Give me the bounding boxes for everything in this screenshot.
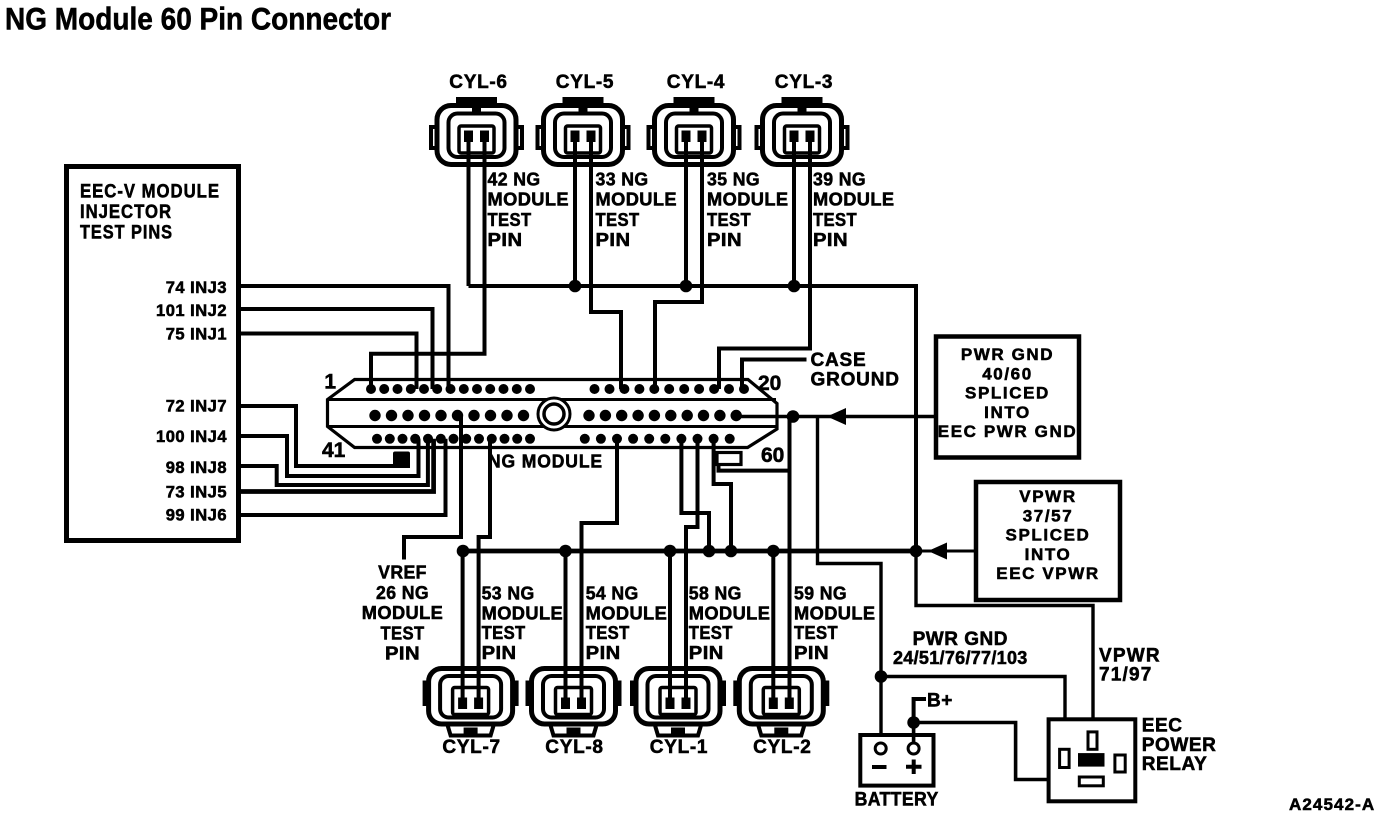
- connector CYL-8: [550, 722, 598, 736]
- svg-text:99 INJ6: 99 INJ6: [166, 506, 227, 524]
- wire PWR GND to battery negative: [818, 417, 882, 744]
- svg-text:MODULE: MODULE: [586, 603, 668, 623]
- svg-text:PIN: PIN: [596, 230, 631, 250]
- svg-text:PIN: PIN: [385, 644, 420, 664]
- connector CYL-3: [782, 97, 823, 106]
- PWR GND 40/60 box: [936, 337, 1079, 458]
- svg-text:98 INJ8: 98 INJ8: [166, 459, 227, 477]
- svg-text:SPLICED: SPLICED: [965, 384, 1050, 403]
- svg-text:MODULE: MODULE: [794, 603, 876, 623]
- wire B+ battery positive to relay: [914, 723, 1080, 780]
- svg-text:EEC-V MODULE: EEC-V MODULE: [80, 182, 220, 203]
- svg-text:POWER: POWER: [1142, 735, 1217, 756]
- svg-text:41: 41: [322, 439, 346, 462]
- svg-text:INJECTOR: INJECTOR: [80, 202, 172, 223]
- svg-text:53 NG: 53 NG: [482, 583, 535, 603]
- connector CYL-5: [563, 97, 604, 106]
- svg-text:PIN: PIN: [482, 643, 517, 663]
- wire CYL-3 left pin to bus: [792, 140, 796, 286]
- battery negative terminal: [875, 743, 886, 754]
- svg-text:24/51/76/77/103: 24/51/76/77/103: [893, 648, 1028, 668]
- wire B+ label pointer: [914, 699, 926, 723]
- NG module internal separator lines: [328, 398, 776, 401]
- wire CYL-6 right pin to NG pin 1: [371, 140, 485, 389]
- wire VPWR top bus: [469, 286, 917, 551]
- svg-text:BATTERY: BATTERY: [855, 790, 939, 811]
- wire NG pin 37 VPWR stub: [714, 439, 731, 551]
- arrow PWR GND: [827, 408, 846, 425]
- svg-text:NG MODULE: NG MODULE: [488, 452, 603, 472]
- svg-text:INTO: INTO: [1025, 545, 1072, 564]
- svg-text:TEST: TEST: [813, 210, 857, 230]
- wire CYL-8 left pin to bus: [564, 551, 568, 703]
- junction pin 37 bus: [725, 545, 738, 558]
- NG module pin row 1-20: [366, 384, 376, 394]
- svg-text:PIN: PIN: [586, 643, 621, 663]
- svg-text:CASE: CASE: [811, 350, 867, 371]
- wire PWR GND vertical / CYL-2 right pin: [788, 417, 792, 704]
- wire 98 INJ8 to NG module: [238, 439, 428, 485]
- relay right pin slot: [1115, 755, 1125, 772]
- battery minus sign: [872, 765, 887, 769]
- svg-text:26 NG: 26 NG: [376, 583, 429, 603]
- connector CYL-7: [447, 722, 495, 736]
- wire 74 INJ3 to NG module: [238, 286, 449, 389]
- wire case ground to NG pin 20: [742, 360, 807, 390]
- svg-text:MODULE: MODULE: [488, 190, 570, 210]
- wire NG pin 57 VPWR stub: [681, 439, 709, 551]
- wire 72 INJ7 to NG module: [238, 406, 410, 466]
- EEC power relay K1: [1049, 719, 1136, 801]
- junction CYL-4 bus: [680, 280, 693, 293]
- svg-text:CYL-8: CYL-8: [545, 737, 603, 758]
- wire NG pin 40 PWR GND: [736, 415, 936, 418]
- wire 99 INJ6 to NG module: [238, 439, 446, 515]
- svg-text:MODULE: MODULE: [482, 603, 564, 623]
- svg-text:73 INJ5: 73 INJ5: [166, 483, 227, 501]
- svg-text:35 NG: 35 NG: [707, 169, 760, 189]
- wire CYL-5 right pin to NG module: [591, 140, 621, 389]
- arrow VPWR: [928, 543, 947, 560]
- svg-text:MODULE: MODULE: [362, 603, 444, 623]
- svg-text:MODULE: MODULE: [707, 190, 789, 210]
- svg-text:GROUND: GROUND: [811, 369, 900, 390]
- svg-text:20: 20: [758, 372, 781, 395]
- relay contact bar: [1078, 753, 1105, 767]
- svg-text:59 NG: 59 NG: [794, 583, 847, 603]
- junction CYL-8 bus: [559, 545, 572, 558]
- svg-text:60: 60: [761, 444, 784, 467]
- svg-text:TEST: TEST: [381, 623, 425, 643]
- svg-text:B+: B+: [927, 691, 953, 712]
- svg-text:EEC PWR GND: EEC PWR GND: [938, 422, 1077, 441]
- svg-text:PWR GND: PWR GND: [913, 629, 1008, 650]
- connector CYL-2: [757, 722, 805, 736]
- wire CYL-6 left pin to VPWR bus: [467, 140, 471, 286]
- wire VPWR bottom bus: [461, 549, 916, 554]
- svg-text:100 INJ4: 100 INJ4: [156, 428, 227, 446]
- svg-text:CYL-7: CYL-7: [442, 737, 500, 758]
- svg-text:TEST: TEST: [596, 210, 640, 230]
- svg-text:A24542-A: A24542-A: [1289, 795, 1375, 814]
- svg-text:37/57: 37/57: [1023, 506, 1074, 525]
- svg-text:SPLICED: SPLICED: [1006, 526, 1091, 545]
- relay bottom blade: [1079, 777, 1103, 786]
- svg-text:CYL-6: CYL-6: [449, 72, 507, 93]
- svg-text:40/60: 40/60: [982, 364, 1033, 383]
- splice blob below pin 41: [393, 452, 410, 467]
- wire CYL-7 left pin to bus: [461, 551, 465, 703]
- battery positive terminal: [908, 743, 919, 754]
- wire 101 INJ2 to NG module: [238, 309, 433, 389]
- NG module key tab pin 60: [717, 453, 741, 465]
- svg-text:1: 1: [324, 371, 336, 394]
- junction PWR GND battery: [875, 670, 888, 683]
- wire NG pin 60 key tab to PWR GND junction: [719, 464, 790, 471]
- svg-text:NG Module 60 Pin Connector: NG Module 60 Pin Connector: [5, 1, 391, 37]
- EEC-V module box U1: [67, 167, 239, 541]
- svg-text:TEST: TEST: [794, 623, 838, 643]
- svg-text:CYL-4: CYL-4: [667, 72, 725, 93]
- svg-text:PIN: PIN: [794, 643, 829, 663]
- battery: [860, 735, 933, 786]
- svg-text:72 INJ7: 72 INJ7: [166, 397, 227, 415]
- relay top pin slot: [1088, 732, 1097, 749]
- svg-text:TEST: TEST: [482, 623, 526, 643]
- wire VPWR to EEC power relay: [916, 551, 1093, 733]
- NG module pin row 21-40: [369, 410, 380, 421]
- svg-text:VREF: VREF: [378, 562, 427, 582]
- svg-text:MODULE: MODULE: [689, 603, 771, 623]
- junction CYL-3 bus: [788, 280, 801, 293]
- junction bus main vertical: [910, 545, 923, 558]
- svg-text:75 INJ1: 75 INJ1: [166, 325, 227, 343]
- junction B+: [907, 716, 920, 729]
- connector CYL-6: [456, 97, 497, 106]
- svg-text:EEC: EEC: [1142, 716, 1183, 737]
- svg-text:TEST: TEST: [689, 623, 733, 643]
- NG module pin row 41-60: [372, 434, 382, 444]
- wire CYL-3 right pin to NG module: [719, 140, 810, 389]
- junction pin 57 bus: [703, 545, 716, 558]
- svg-text:33 NG: 33 NG: [596, 169, 649, 189]
- wire PWR GND to relay: [881, 677, 1065, 752]
- NG module center circle: [544, 404, 564, 424]
- junction PWR GND: [787, 410, 800, 423]
- svg-text:PWR GND: PWR GND: [961, 345, 1054, 364]
- svg-text:TEST: TEST: [707, 210, 751, 230]
- NG module center bump: [538, 398, 570, 430]
- svg-text:42 NG: 42 NG: [488, 169, 541, 189]
- svg-text:CYL-5: CYL-5: [556, 72, 614, 93]
- wire VPWR box to bus: [916, 550, 976, 553]
- svg-text:EEC VPWR: EEC VPWR: [996, 564, 1099, 583]
- svg-text:TEST: TEST: [586, 623, 630, 643]
- svg-text:MODULE: MODULE: [813, 190, 895, 210]
- wire CYL-4 left pin to bus: [684, 140, 688, 286]
- svg-text:CYL-3: CYL-3: [775, 72, 833, 93]
- junction CYL-2 bus: [767, 545, 780, 558]
- svg-text:PIN: PIN: [488, 230, 523, 250]
- wire CYL-1 left pin to bus: [668, 551, 672, 703]
- svg-text:71/97: 71/97: [1099, 665, 1153, 686]
- svg-text:PIN: PIN: [707, 230, 742, 250]
- svg-text:PIN: PIN: [689, 643, 724, 663]
- wire VREF NG pin 26: [404, 416, 461, 560]
- wire CYL-1 right pin to NG module: [686, 439, 698, 703]
- wire 100 INJ4 to NG module: [238, 436, 419, 476]
- connector CYL-1: [654, 722, 702, 736]
- connector CYL-4: [674, 97, 715, 106]
- svg-text:101 INJ2: 101 INJ2: [156, 302, 227, 320]
- wire CYL-8 right pin to NG module: [582, 439, 618, 703]
- svg-text:VPWR: VPWR: [1019, 487, 1076, 506]
- svg-text:MODULE: MODULE: [596, 190, 678, 210]
- wire CYL-2 left pin to bus: [771, 551, 775, 703]
- svg-text:VPWR: VPWR: [1099, 646, 1161, 667]
- svg-text:39 NG: 39 NG: [813, 169, 866, 189]
- svg-text:PIN: PIN: [813, 230, 848, 250]
- wire CYL-5 left pin to bus: [573, 140, 577, 286]
- svg-text:CYL-2: CYL-2: [753, 737, 811, 758]
- battery plus sign: [906, 760, 922, 775]
- NG module 60-pin connector body: [328, 380, 778, 448]
- VPWR 37/57 box: [976, 482, 1120, 600]
- wire CYL-4 right pin to NG module: [655, 140, 702, 389]
- junction CYL-1 bus: [664, 545, 677, 558]
- wire 75 INJ1 to NG module: [238, 334, 417, 390]
- svg-text:CYL-1: CYL-1: [650, 737, 708, 758]
- svg-text:54 NG: 54 NG: [586, 583, 639, 603]
- svg-text:58 NG: 58 NG: [689, 583, 742, 603]
- relay left pin slot: [1060, 749, 1070, 767]
- svg-text:TEST: TEST: [488, 210, 532, 230]
- svg-text:RELAY: RELAY: [1142, 754, 1208, 775]
- junction CYL-7 bus: [457, 545, 470, 558]
- wire CYL-7 right pin to NG module: [479, 439, 490, 703]
- junction CYL-5 bus: [569, 280, 582, 293]
- svg-text:74 INJ3: 74 INJ3: [166, 279, 227, 297]
- wire 73 INJ5 to NG module: [238, 439, 434, 492]
- svg-text:INTO: INTO: [984, 403, 1031, 422]
- svg-text:TEST PINS: TEST PINS: [80, 222, 173, 243]
